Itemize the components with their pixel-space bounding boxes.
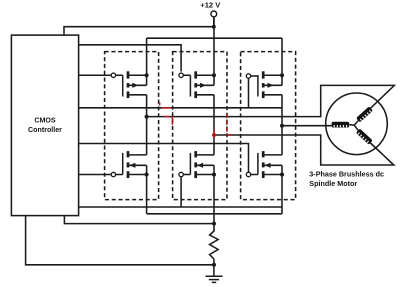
dashed box half-bridge module 1 xyxy=(105,52,159,200)
wire Q2 drain from +12V terminal / body tie xyxy=(213,17,215,86)
wire resistor to ground xyxy=(213,259,215,276)
red highlight dashes on box2 right edge xyxy=(226,114,228,135)
wire gate drive 3 to Q3 gate xyxy=(79,78,282,107)
wire +12V terminal to controller feed xyxy=(213,17,215,27)
wire Q1 drain to +12V rail / body tie xyxy=(146,38,148,85)
motor winding L3 (lower right) xyxy=(356,128,373,144)
wire phase A to motor xyxy=(147,85,395,116)
svg-text:Controller: Controller xyxy=(28,126,62,134)
junction phase C xyxy=(280,124,284,128)
transistor Q1 gate bubble xyxy=(111,73,122,77)
wire phase node column 1 xyxy=(146,95,148,155)
red highlight foot on phase B wire xyxy=(227,134,232,136)
wire phase node column 3 xyxy=(281,95,283,155)
red highlight segment on gate drive 3 wire xyxy=(162,107,172,109)
transistor Q6 n-channel bottom module 3 xyxy=(258,151,284,178)
resistor R1 sense xyxy=(210,231,219,259)
transistor Q2 p-channel top module 2 xyxy=(190,71,216,98)
CMOS controller label xyxy=(28,117,62,134)
red highlight dash on box2 left edge xyxy=(171,116,173,125)
transistor Q1 p-channel top module 1 xyxy=(123,71,149,98)
wire gate drive 6 to Q5 gate xyxy=(79,177,282,207)
wire +12V rail xyxy=(147,37,282,39)
transistor Q3 gate bubble xyxy=(246,74,258,78)
wire gate drive 1 to Q2 gate xyxy=(79,45,182,72)
motor winding L1 (left) xyxy=(332,122,350,128)
motor winding star point xyxy=(349,121,358,131)
dashed box half-bridge module 3 xyxy=(241,52,296,200)
svg-text:+12 V: +12 V xyxy=(200,1,221,10)
motor label xyxy=(309,170,384,188)
CMOS controller U1 box xyxy=(11,35,78,216)
wire sense feedback 1 xyxy=(64,216,214,224)
+12V supply terminal xyxy=(211,11,217,17)
wire +12V feed to controller xyxy=(64,27,214,35)
motor housing circle xyxy=(326,93,388,155)
junction +12V feed xyxy=(212,25,216,29)
wire common source bus xyxy=(147,213,282,215)
red highlight on phase node column 2 xyxy=(213,129,215,138)
transistor Q4 gate bubble xyxy=(111,172,122,176)
motor winding L2 (upper right) xyxy=(356,106,373,122)
transistor Q6 gate bubble xyxy=(246,172,258,176)
transistor Q4 n-channel bottom module 1 xyxy=(123,151,149,178)
transistor Q3 p-channel top module 3 xyxy=(258,71,284,98)
wire sense feedback 2 xyxy=(26,216,214,265)
svg-text:3-Phase Brushless dc: 3-Phase Brushless dc xyxy=(309,170,384,179)
wire gate drive 2 to Q1 gate xyxy=(79,74,112,76)
junction sense feedback 1 xyxy=(212,222,216,226)
junction sense feedback 2 xyxy=(212,263,216,267)
wire Q3 drain to +12V rail / body tie xyxy=(281,38,283,85)
wire phase node column 2 xyxy=(213,95,215,155)
wire Q5 source down to resistor xyxy=(213,165,215,231)
red highlight segment on phase A wire xyxy=(164,116,170,118)
svg-text:Spindle Motor: Spindle Motor xyxy=(309,179,357,188)
ground symbol xyxy=(206,276,223,282)
wire phase B to motor xyxy=(214,135,394,165)
transistor Q2 gate bubble xyxy=(179,73,190,77)
wire gate drive 5 to Q4 gate xyxy=(79,174,112,176)
wire gate drive 4 to Q6 gate xyxy=(79,144,249,173)
wire phase C to motor xyxy=(282,125,332,127)
svg-text:CMOS: CMOS xyxy=(34,117,56,125)
wire Q4 source to common bus xyxy=(146,165,148,214)
junction phase A xyxy=(145,115,149,119)
wire Q6 source to common bus xyxy=(281,165,283,214)
transistor Q5 n-channel bottom module 2 xyxy=(190,151,216,178)
dashed box half-bridge module 2 xyxy=(173,52,227,200)
junction phase B (red) xyxy=(212,133,216,137)
+12 V label xyxy=(200,1,221,10)
transistor Q5 gate bubble xyxy=(179,172,190,176)
red highlight dash on box1 edge above gate wire xyxy=(159,103,161,106)
